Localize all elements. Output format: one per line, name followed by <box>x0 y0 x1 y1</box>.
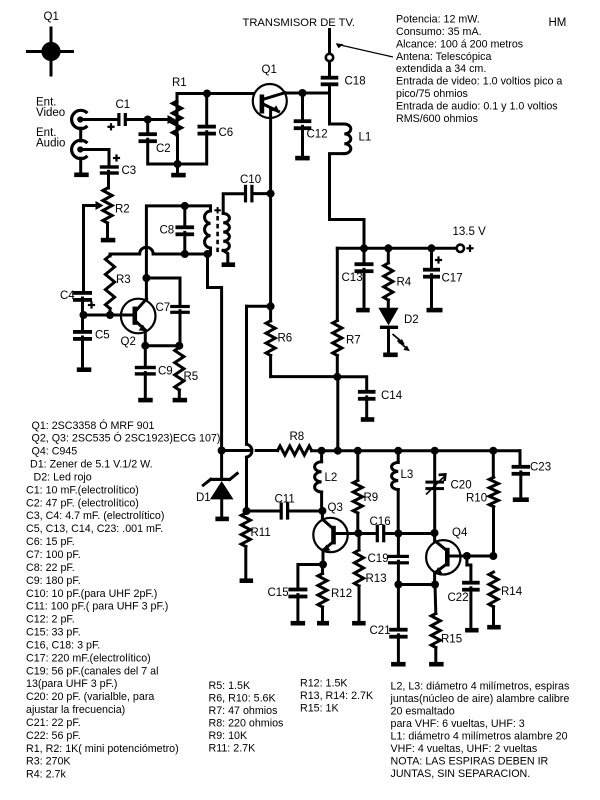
node Q2 collector / C7 <box>142 274 150 282</box>
node rail/R7 branch <box>334 447 342 455</box>
resistor R9 <box>353 480 362 513</box>
svg-text:C17: C17 <box>442 273 463 285</box>
svg-text:Q3: Q3 <box>328 502 343 514</box>
svg-text:13.5 V: 13.5 V <box>453 226 487 238</box>
svg-text:C19: C19 <box>368 553 389 565</box>
wire C2 bottom rail <box>148 132 207 164</box>
wire R3 top <box>109 254 112 256</box>
ground (R12) <box>317 621 329 626</box>
svg-text:JUNTAS, SIN SEPARACION.: JUNTAS, SIN SEPARACION. <box>391 768 531 780</box>
node Q1 collector / C12 <box>299 89 307 97</box>
ground (C5) <box>77 367 92 372</box>
svg-text:Q1: Q1 <box>262 64 277 76</box>
ground (C21) <box>391 662 406 667</box>
svg-text:R5: R5 <box>184 371 199 383</box>
node rail/C17 <box>428 244 436 252</box>
svg-text:C8: C8 <box>160 225 175 237</box>
antenna wire <box>328 30 331 54</box>
wire Q4 collector <box>433 533 436 542</box>
node base/R10/R14 <box>489 552 497 560</box>
inductor L3 <box>397 451 400 463</box>
svg-text:R12: 1.5K: R12: 1.5K <box>300 677 348 689</box>
ground (C12) <box>295 156 310 161</box>
inductor L1 <box>344 124 351 154</box>
svg-text:C16: C16 <box>370 516 391 528</box>
svg-text:R6: R6 <box>278 333 293 345</box>
node rail/R10 <box>489 447 497 455</box>
svg-text:R3: 270K: R3: 270K <box>26 756 71 768</box>
transformer T1 core (dashed) <box>216 216 219 253</box>
resistor R3 <box>105 256 114 309</box>
svg-text:C10: 10 pF.(para UHF 2pF.): C10: 10 pF.(para UHF 2pF.) <box>26 588 157 600</box>
supply rail wire <box>337 247 456 250</box>
wire collector node to C7 <box>146 278 180 305</box>
wire C10 to Q1 emitter line <box>253 192 271 195</box>
resistor R1 (pot) <box>172 101 181 135</box>
svg-text:C21: C21 <box>370 625 391 637</box>
capacitor C15 <box>288 588 307 592</box>
svg-text:L2, L3: diámetro 4 milímetros,: L2, L3: diámetro 4 milímetros, espiras <box>391 680 570 692</box>
capacitor C19 <box>397 534 400 555</box>
svg-text:C21: 22 pF.: C21: 22 pF. <box>26 717 81 729</box>
svg-text:R11: 2.7K: R11: 2.7K <box>209 742 257 754</box>
wire branch left <box>247 305 271 308</box>
node Q3 collector / C11 <box>318 507 326 515</box>
wire R1 top to Q1 base <box>176 101 179 135</box>
D2 emission arrows <box>393 334 403 343</box>
svg-text:Q4: Q4 <box>452 527 468 539</box>
terminal bar C13 <box>356 308 370 313</box>
svg-text:R12: R12 <box>331 588 352 600</box>
svg-text:D2: Led rojo: D2: Led rojo <box>34 471 92 483</box>
node rail/R9 <box>354 447 362 455</box>
ground (R11) <box>240 578 254 583</box>
antenna terminal circle <box>326 54 333 61</box>
wire emitter row <box>398 583 435 586</box>
svg-text:C1: C1 <box>116 99 131 111</box>
variable capacitor C20 <box>433 451 436 533</box>
resistor R15 <box>431 614 440 648</box>
wire Q4 emitter <box>433 573 436 585</box>
jack shell link wire <box>79 128 82 141</box>
svg-text:R1, R2: 1K( mini potenciómetro: R1, R2: 1K( mini potenciómetro) <box>26 743 179 755</box>
svg-text:Q2, Q3: 2SC535 Ó 2SC1923)ECG 1: Q2, Q3: 2SC535 Ó 2SC1923)ECG 107) <box>32 432 221 445</box>
capacitor C13 <box>363 248 366 262</box>
capacitor C17 <box>430 248 433 267</box>
svg-text:R14: R14 <box>501 586 523 598</box>
leader line to antenna note <box>338 45 393 58</box>
svg-text:C19: 56 pF.(canales del 7 al: C19: 56 pF.(canales del 7 al <box>26 665 159 677</box>
svg-text:R3: R3 <box>116 274 131 286</box>
resistor R11 <box>241 513 250 547</box>
svg-text:C3, C4: 4.7 mF. (electrolítico: C3, C4: 4.7 mF. (electrolítico) <box>26 510 164 522</box>
svg-text:C6: C6 <box>219 127 234 139</box>
resistor R7 <box>333 321 342 356</box>
svg-text:C7: C7 <box>156 302 171 314</box>
svg-text:C2: C2 <box>156 143 171 155</box>
svg-text:13(para UHF 3 pF.): 13(para UHF 3 pF.) <box>26 678 117 690</box>
svg-text:C2: 47 pF. (electrolítico): C2: 47 pF. (electrolítico) <box>26 497 139 509</box>
wire R6 bottom to R7 bottom <box>271 375 338 378</box>
terminal bar C14 <box>361 417 375 422</box>
wire C1 to node <box>127 118 148 121</box>
R2 wiper arrow wire <box>84 206 97 292</box>
svg-text:C22: 56 pF.: C22: 56 pF. <box>26 730 81 742</box>
wire R1 bottom <box>176 135 179 164</box>
wire Q2 collector up <box>146 206 210 300</box>
resistor R8 <box>278 446 312 455</box>
resistor R12 <box>318 574 327 608</box>
node C10/emitter line <box>267 190 275 198</box>
wire base node to Q2 <box>84 314 134 317</box>
svg-text:R2: R2 <box>115 204 130 216</box>
wire C18 to L1 <box>330 86 345 124</box>
svg-text:R7: R7 <box>346 335 361 347</box>
oscillator rail wire <box>312 449 520 452</box>
ground stub below C2/C6 <box>176 164 179 173</box>
R1 wiper arrow <box>148 118 169 121</box>
svg-text:R7: 47 ohmios: R7: 47 ohmios <box>209 705 278 717</box>
svg-text:C15: 33 pF.: C15: 33 pF. <box>26 627 81 639</box>
capacitor C12 <box>301 93 304 119</box>
svg-text:para VHF: 6 vueltas, UHF: 3: para VHF: 6 vueltas, UHF: 3 <box>391 718 525 730</box>
node R3/base <box>106 311 114 319</box>
wire C3 to R2 <box>107 171 110 188</box>
wire Q4 base right <box>449 555 493 558</box>
svg-text:R4: 2.7k: R4: 2.7k <box>26 769 66 781</box>
terminal bar C23 <box>513 497 529 502</box>
wire Q3 collector <box>321 511 324 520</box>
node C1/C2/R1 wiper junction <box>144 116 152 124</box>
node rail/L2 <box>318 447 326 455</box>
svg-text:C9: 180 pF.: C9: 180 pF. <box>26 575 81 587</box>
svg-text:D1: D1 <box>196 492 211 504</box>
audio jack ground stub <box>79 158 82 172</box>
svg-text:RMS/600 ohmios: RMS/600 ohmios <box>396 113 478 125</box>
svg-text:extendida a 34 cm.: extendida a 34 cm. <box>396 63 486 75</box>
svg-text:R15: R15 <box>441 634 462 646</box>
svg-text:R13: R13 <box>366 573 387 585</box>
svg-text:L1: diámetro 4 milímetros alam: L1: diámetro 4 milímetros alambre 20 <box>391 731 568 743</box>
svg-text:R9: 10K: R9: 10K <box>209 730 248 742</box>
svg-text:C4: C4 <box>60 290 75 302</box>
capacitor C10 <box>244 185 247 203</box>
svg-text:HM: HM <box>549 17 567 29</box>
svg-text:C11: 100 pF.( para UHF 3 pF.): C11: 100 pF.( para UHF 3 pF.) <box>26 601 168 613</box>
svg-text:Q2: Q2 <box>121 336 136 348</box>
wire L1 down to supply rail <box>330 154 365 249</box>
13.5V plus <box>466 247 473 249</box>
wire emitter to C15 <box>298 565 323 588</box>
node C19 bottom / C21 <box>394 581 402 589</box>
svg-text:L3: L3 <box>401 469 414 481</box>
svg-text:Alcance: 100 á 200 metros: Alcance: 100 á 200 metros <box>396 38 523 50</box>
wire Q3 base right <box>336 532 376 535</box>
node rail/C20 <box>431 447 439 455</box>
svg-text:R8: R8 <box>290 431 305 443</box>
wire C6 top <box>205 94 208 125</box>
wire Q1 collector to C18 line <box>285 92 330 95</box>
svg-text:C11: C11 <box>275 494 295 506</box>
svg-text:C3: C3 <box>122 165 137 177</box>
svg-text:Q4: C945: Q4: C945 <box>32 446 78 458</box>
capacitor C6 <box>198 125 216 129</box>
wire emitter branch down (hops R8 wire) <box>245 306 248 444</box>
ground (audio jack) <box>74 173 89 178</box>
svg-text:C18: C18 <box>345 76 366 88</box>
node D1 top <box>218 447 226 455</box>
svg-text:Entrada de video: 1.0 voltios: Entrada de video: 1.0 voltios pico a <box>396 76 562 88</box>
svg-text:Antena: Telescópica: Antena: Telescópica <box>396 51 492 63</box>
wire rail to C23 <box>519 451 522 465</box>
svg-text:NOTA: LAS ESPIRAS DEBEN IR: NOTA: LAS ESPIRAS DEBEN IR <box>391 756 549 768</box>
capacitor C16 <box>376 525 379 543</box>
wire to C14 <box>337 377 366 390</box>
wire rail to R7 <box>336 248 339 320</box>
ground (C15) <box>291 621 306 626</box>
svg-text:pico/75 ohmios: pico/75 ohmios <box>396 88 468 100</box>
audio RCA jack J2 <box>72 140 88 158</box>
node base/C22 <box>463 552 471 560</box>
capacitor C9 <box>144 346 147 366</box>
svg-text:R10: R10 <box>466 493 487 505</box>
svg-text:C20: C20 <box>451 480 472 492</box>
C17 polarity + <box>435 259 442 261</box>
svg-text:Q1: 2SC3358 Ó MRF 901: Q1: 2SC3358 Ó MRF 901 <box>32 419 155 432</box>
svg-text:C1: 10 mF.(electrolítico): C1: 10 mF.(electrolítico) <box>26 484 139 496</box>
svg-text:Entrada de audio: 0.1 y 1.0 vo: Entrada de audio: 0.1 y 1.0 voltios <box>396 100 558 112</box>
resistor R2 (pot) <box>103 188 112 223</box>
svg-text:ajustar la frecuencia): ajustar la frecuencia) <box>26 704 125 716</box>
svg-text:L2: L2 <box>325 472 338 484</box>
wire junction down to rail <box>336 377 339 451</box>
svg-text:20 esmaltado: 20 esmaltado <box>391 705 455 717</box>
node R1 bottom / ground <box>174 160 182 168</box>
wire Q2 emitter <box>144 331 147 346</box>
svg-text:C23: C23 <box>530 462 551 474</box>
svg-text:C10: C10 <box>240 174 261 186</box>
C3 polarity + <box>113 157 120 159</box>
ground (R5) <box>173 398 188 403</box>
transformer T1 secondary winding <box>223 214 229 251</box>
wire T1 bottom down to D1 <box>208 254 222 450</box>
svg-text:C16, C18: 3 pF.: C16, C18: 3 pF. <box>26 639 100 651</box>
transformer polarity + <box>214 209 220 211</box>
C1 polarity + <box>107 126 114 128</box>
svg-text:C7: 100 pF.: C7: 100 pF. <box>26 549 81 561</box>
capacitor C1 <box>117 113 120 126</box>
svg-text:R1: R1 <box>172 77 187 89</box>
svg-text:Consumo: 35 mA.: Consumo: 35 mA. <box>396 26 482 38</box>
ground (R13) <box>352 621 366 626</box>
svg-text:Q1: Q1 <box>44 11 59 23</box>
svg-text:R15: 1K: R15: 1K <box>300 702 339 714</box>
node T1 primary bottom <box>204 250 212 258</box>
Q1 legend pinout symbol <box>28 50 73 53</box>
wire C4 to base node <box>81 298 84 315</box>
svg-text:C12: C12 <box>307 129 328 141</box>
resistor R5 <box>175 348 184 391</box>
svg-text:L1: L1 <box>359 132 372 144</box>
C4 polarity + <box>88 304 95 306</box>
wire Q1 emitter down <box>269 110 272 306</box>
svg-text:D1: Zener de 5.1 V.1/2 W.: D1: Zener de 5.1 V.1/2 W. <box>30 459 153 471</box>
node R7/C14/down <box>333 373 341 381</box>
svg-text:C15: C15 <box>268 587 289 599</box>
node C8 bottom <box>181 250 189 258</box>
node C4/C5/R3/Q2 base <box>80 311 88 319</box>
capacitor C14 <box>358 390 376 394</box>
ground (T1 secondary) <box>222 262 236 267</box>
resistor R10 <box>489 477 498 506</box>
capacitor C8 <box>183 206 186 226</box>
node R1/C6 <box>203 90 211 98</box>
svg-text:C9: C9 <box>158 366 173 378</box>
wire D1 node to R8 <box>222 449 251 452</box>
svg-text:Video: Video <box>36 107 65 119</box>
ground (C2/C6/R1) <box>171 173 186 178</box>
svg-text:D2: D2 <box>404 314 419 326</box>
inductor L2 <box>320 451 323 462</box>
node C8 top <box>181 202 189 210</box>
node C7/R5 <box>175 342 183 350</box>
node emitter/R6/branch <box>267 302 275 310</box>
capacitor C5 <box>81 315 84 330</box>
video RCA jack J1 <box>72 110 88 128</box>
capacitor C23 <box>512 465 530 469</box>
resistor R13 <box>354 550 363 586</box>
capacitor C22 <box>465 556 468 565</box>
capacitor C2 <box>146 120 149 133</box>
svg-text:R5: 1.5K: R5: 1.5K <box>209 680 251 692</box>
svg-text:C5, C13, C14, C23: .001 mF.: C5, C13, C14, C23: .001 mF. <box>26 523 163 535</box>
ground (C22) <box>465 628 479 633</box>
svg-text:Potencia: 12 mW.: Potencia: 12 mW. <box>396 14 480 26</box>
node C20 / Q4 collector <box>431 529 439 537</box>
svg-text:C17: 220 mF.(electrolítico): C17: 220 mF.(electrolítico) <box>26 652 151 664</box>
node R9/R13/base <box>354 529 362 537</box>
svg-text:R6, R10: 5.6K: R6, R10: 5.6K <box>209 692 277 704</box>
svg-text:R9: R9 <box>364 492 379 504</box>
svg-text:C20: 20 pF. (varialble, para: C20: 20 pF. (varialble, para <box>26 691 154 703</box>
ground (R15) <box>429 662 444 667</box>
svg-text:C8: 22 pF.: C8: 22 pF. <box>26 562 75 574</box>
svg-text:R8: 220 ohmios: R8: 220 ohmios <box>209 717 284 729</box>
svg-text:R11: R11 <box>251 527 271 539</box>
node rail/R4 <box>384 244 392 252</box>
capacitor C21 <box>397 585 400 628</box>
node Q2 emitter / C9 / R5 <box>141 342 149 350</box>
resistor R6 <box>266 321 275 356</box>
ground (D1) <box>215 517 229 522</box>
capacitor C4 <box>73 291 92 295</box>
svg-text:Audio: Audio <box>36 138 65 150</box>
node Q3 emitter/C15/R12 <box>319 561 327 569</box>
wire video jack to C1 <box>83 118 117 121</box>
wire audio jack to C3 <box>83 150 109 166</box>
secondary top wire to C10 <box>223 194 244 214</box>
node Q4 emitter / R15 <box>431 581 439 589</box>
svg-text:VHF: 4 vueltas, UHF: 2 vueltas: VHF: 4 vueltas, UHF: 2 vueltas <box>391 743 538 755</box>
svg-text:C5: C5 <box>95 330 110 342</box>
secondary bottom to ground <box>223 251 228 263</box>
transformer T1 primary winding <box>209 206 212 211</box>
svg-text:C22: C22 <box>448 592 469 604</box>
node rail/L1 <box>360 244 368 252</box>
ground (D2) <box>383 353 398 358</box>
wire Q3 emitter <box>322 550 325 565</box>
wire antenna to C18 <box>328 61 331 75</box>
ground (C9) <box>138 398 153 403</box>
svg-text:C6: 15 pF.: C6: 15 pF. <box>26 536 75 548</box>
ground (R14) <box>487 625 501 630</box>
svg-text:C14: C14 <box>381 390 403 402</box>
resistor R14 <box>489 572 498 607</box>
svg-text:juntas(núcleo de aire) alambre: juntas(núcleo de aire) alambre calibre <box>390 693 570 705</box>
capacitor C3 <box>100 165 119 168</box>
ground (R2) <box>101 238 116 243</box>
node L3/C19/C16 <box>394 530 402 538</box>
LED D2 <box>378 308 398 326</box>
node C11 left / R11 <box>243 507 251 515</box>
13.5V terminal circle <box>457 245 464 252</box>
wire D1 node down to zener <box>220 451 223 479</box>
capacitor C18 <box>321 76 339 80</box>
svg-text:C13: C13 <box>342 272 363 284</box>
svg-text:TRANSMISOR DE TV.: TRANSMISOR DE TV. <box>243 17 356 29</box>
svg-text:C12: 2 pF.: C12: 2 pF. <box>26 614 75 626</box>
capacitor C7 <box>170 305 190 308</box>
svg-text:R4: R4 <box>397 277 412 289</box>
terminal bar C17 <box>427 308 443 313</box>
hop: R3 wire over Q2 collector <box>110 253 140 256</box>
capacitor C11 <box>247 510 280 513</box>
resistor R4 <box>387 248 390 263</box>
wire C16 to tank node <box>385 532 435 535</box>
svg-text:R13, R14: 2.7K: R13, R14: 2.7K <box>300 690 374 702</box>
node rail/L3 <box>394 447 402 455</box>
